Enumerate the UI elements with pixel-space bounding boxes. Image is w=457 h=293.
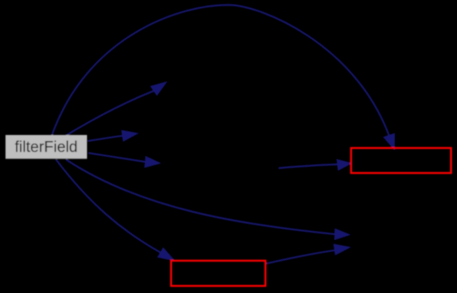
wire: edge hidden node C to red node 1 (left entry) bbox=[279, 164, 338, 168]
wire: edge filterField to hidden node C bbox=[89, 153, 146, 162]
arrowhead: into hidden node A bbox=[151, 82, 167, 95]
wire: edge filterField to hidden node A (upper middle) bbox=[66, 91, 154, 136]
arrowhead: into top of red node 1 bbox=[384, 134, 395, 150]
wire: edge filterField to hidden node B (middle) bbox=[88, 136, 123, 141]
arrowhead: into hidden node B bbox=[122, 131, 138, 142]
wire: edge filterField to red node 2 (bottom curve) bbox=[56, 160, 161, 253]
node filterField (current node, grey filled) bbox=[6, 135, 88, 159]
wire: edge red node 2 to hidden node D (lower) bbox=[267, 250, 335, 263]
arrowhead: into hidden node C bbox=[145, 157, 160, 168]
wire: edge filterField to hidden node D (long lower curve) bbox=[66, 160, 335, 235]
arrowhead: into top-left corner of red node 2 bbox=[158, 248, 175, 261]
arrowhead: into left side of red node 1 bbox=[337, 160, 351, 171]
node red box 2 (bottom, black fill) bbox=[171, 261, 265, 286]
arrowhead: into hidden node D (upper) bbox=[335, 229, 350, 240]
arrowhead: into hidden node D (lower) bbox=[334, 244, 350, 255]
node red box 1 (right, black fill) bbox=[351, 148, 451, 173]
svg-text:filterField: filterField bbox=[15, 139, 78, 156]
wire: edge filterField to red node 1 (big top arc) bbox=[52, 5, 389, 135]
